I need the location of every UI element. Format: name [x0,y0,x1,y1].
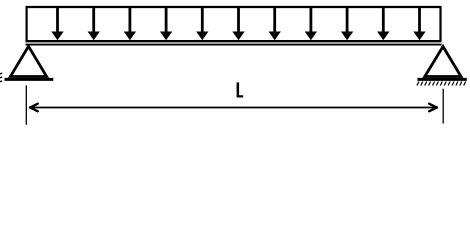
distributed load box right edge [439,6,441,41]
beam (top and bottom flange lines) [26,41,442,44]
dimension line [30,107,438,109]
dimension left arrowhead [30,104,38,112]
right support triangle [425,47,461,77]
left support ground bar [5,78,54,81]
left support triangle [10,46,46,76]
load arrow 11 [413,7,425,40]
load arrow 2 [88,7,100,40]
right support hatching [417,82,466,86]
load arrow 1 [51,7,63,40]
load arrow 10 [377,7,389,40]
load arrow 7 [269,7,281,40]
load arrow 6 [232,7,244,40]
left edge hatch marks [0,73,2,82]
load arrow 5 [196,7,208,40]
right support ground bar [417,78,466,81]
dimension right arrowhead [429,104,437,112]
distributed load box left edge [26,6,28,41]
load arrow 9 [341,7,353,40]
load arrow 3 [124,7,136,40]
load arrow 8 [305,7,317,40]
distributed load box top line [26,6,442,8]
left extension line [25,85,27,125]
right extension line [442,89,444,124]
label L [237,82,244,97]
load arrow 4 [160,7,172,40]
